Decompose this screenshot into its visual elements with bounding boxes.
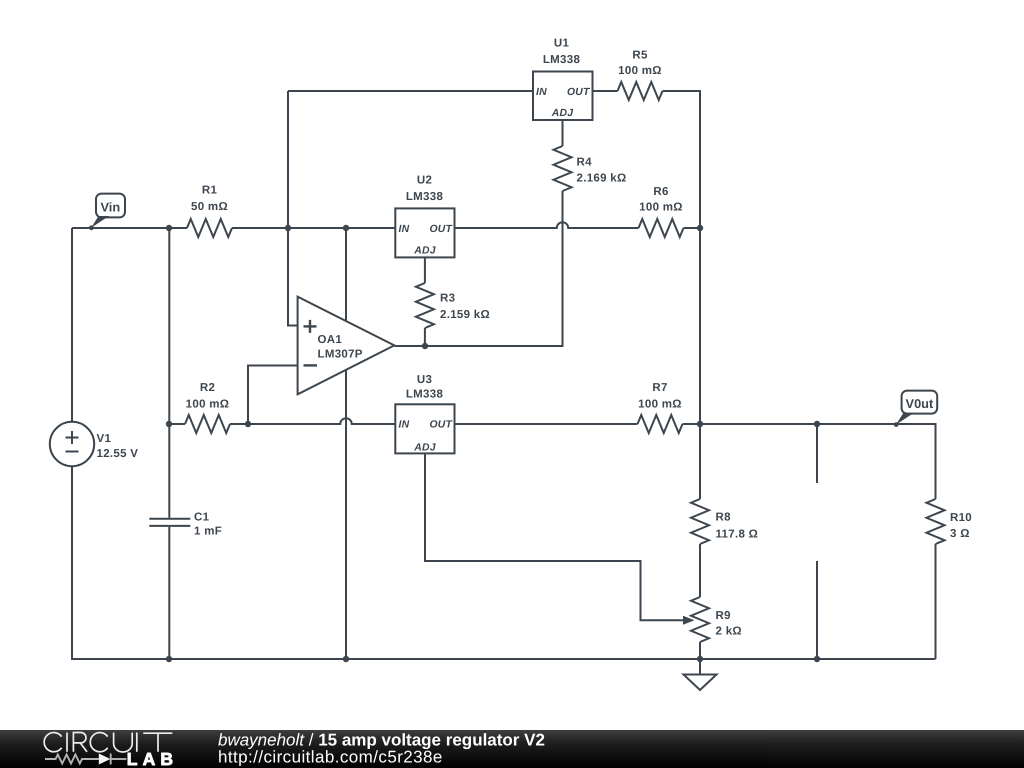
svg-text:LM307P: LM307P xyxy=(318,349,363,361)
svg-text:2.169 kΩ: 2.169 kΩ xyxy=(577,173,627,185)
svg-text:U3: U3 xyxy=(417,374,432,386)
svg-text:R7: R7 xyxy=(652,382,667,394)
svg-text:12.55 V: 12.55 V xyxy=(97,448,139,460)
svg-text:C1: C1 xyxy=(194,512,210,524)
svg-text:2.159 kΩ: 2.159 kΩ xyxy=(440,309,490,321)
svg-text:OA1: OA1 xyxy=(318,334,343,346)
svg-text:OUT: OUT xyxy=(567,87,591,98)
svg-text:100 mΩ: 100 mΩ xyxy=(638,399,682,411)
svg-text:R2: R2 xyxy=(200,382,215,394)
svg-text:LM338: LM338 xyxy=(543,54,581,66)
svg-text:ADJ: ADJ xyxy=(551,108,573,119)
svg-text:IN: IN xyxy=(399,224,410,235)
svg-text:R10: R10 xyxy=(950,512,972,524)
svg-text:R1: R1 xyxy=(202,185,218,197)
svg-text:100 mΩ: 100 mΩ xyxy=(639,202,683,214)
svg-text:V0ut: V0ut xyxy=(906,396,934,411)
svg-text:R8: R8 xyxy=(716,512,732,524)
svg-text:2 kΩ: 2 kΩ xyxy=(716,626,742,638)
svg-text:3 Ω: 3 Ω xyxy=(950,528,970,540)
svg-text:V1: V1 xyxy=(97,433,112,445)
svg-text:R4: R4 xyxy=(577,157,593,169)
svg-text:ADJ: ADJ xyxy=(413,443,435,454)
svg-text:117.8 Ω: 117.8 Ω xyxy=(716,529,759,541)
svg-text:100 mΩ: 100 mΩ xyxy=(618,65,662,77)
svg-text:R6: R6 xyxy=(653,186,668,198)
svg-text:U2: U2 xyxy=(417,175,432,187)
svg-text:LAB: LAB xyxy=(127,749,178,768)
svg-text:Vin: Vin xyxy=(100,199,120,214)
svg-text:OUT: OUT xyxy=(429,224,453,235)
svg-text:http://circuitlab.com/c5r238e: http://circuitlab.com/c5r238e xyxy=(218,748,443,767)
svg-text:R5: R5 xyxy=(632,50,648,62)
svg-text:OUT: OUT xyxy=(429,420,453,431)
svg-text:1 mF: 1 mF xyxy=(194,526,222,538)
svg-text:R3: R3 xyxy=(440,293,455,305)
svg-text:50 mΩ: 50 mΩ xyxy=(191,201,228,213)
svg-text:U1: U1 xyxy=(554,38,570,50)
svg-text:IN: IN xyxy=(399,420,410,431)
svg-text:R9: R9 xyxy=(716,610,731,622)
svg-text:100 mΩ: 100 mΩ xyxy=(186,399,230,411)
svg-text:LM338: LM338 xyxy=(406,389,444,401)
svg-text:ADJ: ADJ xyxy=(413,246,435,257)
svg-text:LM338: LM338 xyxy=(406,191,444,203)
svg-text:IN: IN xyxy=(536,87,547,98)
